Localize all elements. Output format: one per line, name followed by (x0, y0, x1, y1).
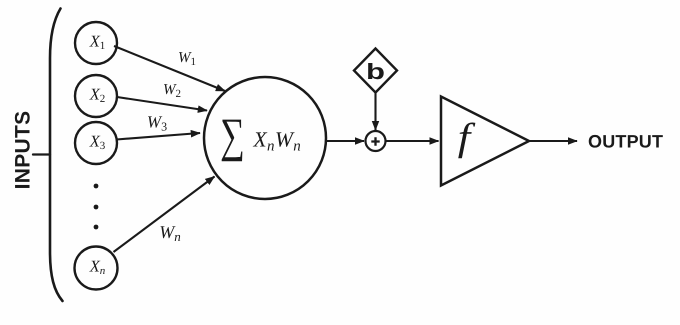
svg-text:INPUTS: INPUTS (12, 111, 35, 190)
activation function triangle (441, 97, 529, 186)
input node Xn (75, 247, 118, 290)
label INPUTS (12, 111, 35, 190)
weight label W2 (163, 82, 181, 100)
input node X3 (75, 122, 117, 164)
svg-text:f: f (458, 116, 476, 159)
svg-text:Xn: Xn (89, 257, 106, 278)
wire X2 to sum (117, 97, 207, 111)
svg-text:W2: W2 (163, 82, 181, 100)
wire X3 to sum (117, 133, 201, 140)
svg-text:X3: X3 (89, 132, 106, 153)
svg-text:W1: W1 (178, 50, 196, 68)
wire activation to output (529, 140, 577, 142)
wire adder to activation (386, 140, 439, 142)
svg-text:X2: X2 (89, 85, 106, 106)
label OUTPUT (588, 132, 663, 152)
bias diamond b (354, 49, 397, 93)
weight label Wn (159, 222, 181, 244)
inputs brace (33, 9, 63, 302)
svg-text:W3: W3 (147, 113, 167, 134)
summation node (204, 77, 326, 199)
ellipsis dots (94, 184, 99, 230)
svg-text:∑: ∑ (220, 109, 245, 162)
input node X1 (75, 22, 117, 64)
adder node (366, 131, 386, 151)
svg-text:XnWn: XnWn (253, 128, 302, 155)
svg-text:b: b (366, 59, 385, 84)
svg-text:X1: X1 (89, 32, 106, 53)
wire Xn to sum (114, 177, 215, 253)
svg-text:Wn: Wn (159, 222, 181, 244)
wire sum to adder (326, 140, 364, 142)
input node X2 (75, 75, 117, 117)
weight label W1 (178, 50, 196, 68)
svg-text:OUTPUT: OUTPUT (588, 132, 663, 152)
wire X1 to sum (114, 46, 225, 91)
weight label W3 (147, 113, 167, 134)
wire bias to adder (374, 93, 376, 131)
